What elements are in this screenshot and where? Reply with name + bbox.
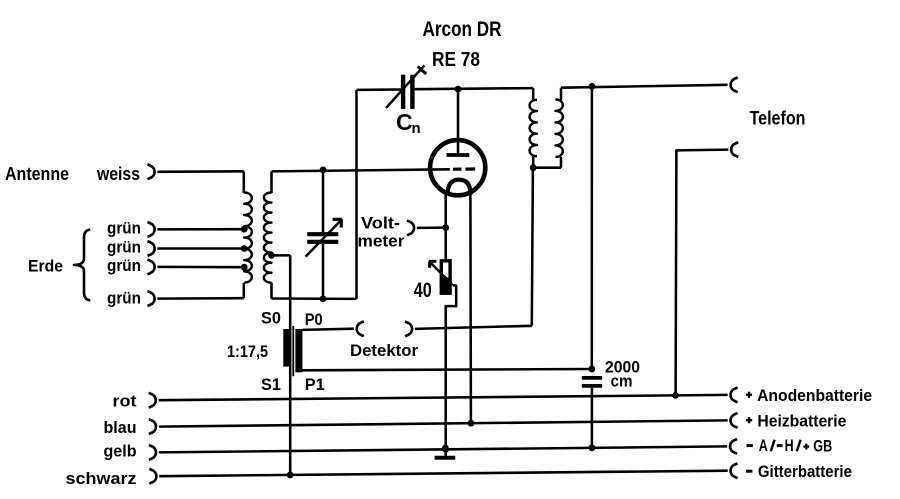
svg-text:1:17,5: 1:17,5: [227, 342, 268, 361]
svg-text:40: 40: [414, 279, 432, 302]
svg-text:blau: blau: [104, 418, 137, 437]
svg-text:schwarz: schwarz: [66, 469, 137, 488]
svg-text:Heizbatterie: Heizbatterie: [757, 412, 846, 431]
svg-text:Volt-: Volt-: [361, 214, 400, 233]
svg-text:S0: S0: [261, 309, 281, 328]
svg-text:n: n: [412, 120, 421, 137]
svg-text:meter: meter: [358, 232, 405, 251]
svg-text:cm: cm: [611, 372, 633, 391]
svg-text:grün: grün: [107, 219, 141, 238]
svg-text:rot: rot: [113, 392, 137, 411]
svg-text:gelb: gelb: [104, 442, 137, 461]
svg-text:Antenne: Antenne: [5, 164, 69, 184]
svg-text:grün: grün: [107, 256, 141, 275]
svg-text:Telefon: Telefon: [750, 109, 806, 130]
svg-text:Erde: Erde: [28, 257, 63, 276]
svg-text:P1: P1: [305, 375, 325, 394]
svg-text:grün: grün: [107, 289, 141, 308]
svg-text:A: A: [759, 436, 768, 455]
svg-text:RE 78: RE 78: [432, 48, 480, 71]
svg-text:P0: P0: [305, 310, 323, 329]
svg-text:H: H: [785, 436, 794, 455]
svg-text:C: C: [396, 109, 413, 135]
svg-text:Detektor: Detektor: [350, 341, 418, 360]
svg-text:GB: GB: [813, 436, 832, 455]
svg-text:Arcon DR: Arcon DR: [423, 18, 502, 41]
svg-text:Gitterbatterie: Gitterbatterie: [758, 462, 852, 481]
svg-text:Anodenbatterie: Anodenbatterie: [757, 386, 872, 405]
svg-text:grün: grün: [107, 238, 141, 257]
svg-text:S1: S1: [261, 375, 281, 394]
svg-text:weiss: weiss: [96, 164, 140, 184]
